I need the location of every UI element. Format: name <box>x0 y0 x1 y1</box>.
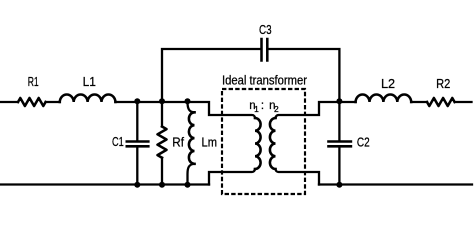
wire: node A down to C1 <box>136 102 138 140</box>
wire: R1 to L1 <box>46 101 60 103</box>
svg-text:C3: C3 <box>259 23 272 37</box>
resistor Rf <box>158 127 167 158</box>
wire: Rf down to node F <box>161 158 163 185</box>
svg-text:C2: C2 <box>357 136 370 150</box>
wire: node C to transformer primary top lead <box>188 102 256 118</box>
wire: node B down to Rf <box>161 102 163 127</box>
inductor L1 <box>60 94 116 102</box>
wire: secondary bottom step to node I <box>319 183 339 185</box>
node F junction dot <box>159 182 165 188</box>
wire: node E to node F <box>137 183 162 185</box>
capacitor C2 <box>327 142 352 147</box>
wire: L1 to node A <box>115 101 137 103</box>
svg-text:L1: L1 <box>83 75 96 89</box>
svg-text:L2: L2 <box>381 77 395 91</box>
svg-text:Rf: Rf <box>172 136 184 150</box>
wire: bottom rail left terminal to node E <box>1 183 138 185</box>
svg-text:1: 1 <box>254 104 259 114</box>
node B junction dot <box>159 98 165 104</box>
wire: Lm down to node G <box>188 164 195 185</box>
wire: transformer primary bottom lead <box>209 169 255 185</box>
svg-text:Ideal transformer: Ideal transformer <box>222 74 307 88</box>
wire: R2 to right output terminal <box>455 101 472 103</box>
ideal transformer boundary (dashed box) <box>222 89 305 194</box>
wire: node A to node B <box>137 101 162 103</box>
wire: transformer secondary bottom lead <box>276 169 320 185</box>
node I junction dot <box>336 182 342 188</box>
svg-text:C1: C1 <box>112 135 124 149</box>
svg-text::: : <box>261 100 264 112</box>
node G junction dot <box>185 182 191 188</box>
wire: node C down to Lm <box>188 102 195 112</box>
inductor Lm <box>189 112 195 164</box>
wire: node H to C2 top <box>338 102 340 140</box>
wire: node I to bottom right terminal <box>339 183 472 185</box>
wire: right section of C3 top rail down to node D <box>269 49 340 102</box>
resistor R2 <box>427 98 455 106</box>
wire: transformer secondary top lead to node D <box>276 102 340 118</box>
node E junction dot <box>134 182 140 188</box>
node A junction dot <box>134 98 140 104</box>
svg-text:R1: R1 <box>28 75 39 89</box>
wire: L2 to R2 <box>411 101 427 103</box>
wire: node G to primary bottom corner <box>188 183 210 185</box>
svg-text:2: 2 <box>274 104 279 114</box>
capacitor C1 <box>126 142 150 147</box>
capacitor C3 <box>262 38 268 62</box>
node D junction dot <box>336 98 342 104</box>
inductor L2 <box>356 95 412 103</box>
wire: C1 down to node E <box>136 148 138 185</box>
wire: node B to node C <box>162 101 188 103</box>
wire: left input terminal to R1 <box>1 101 19 103</box>
wire: node D to L2 <box>339 101 355 103</box>
svg-text:R2: R2 <box>436 77 450 91</box>
wire: node B up to top rail and left section of C3 rail <box>162 49 260 102</box>
svg-text:Lm: Lm <box>202 136 218 150</box>
wire: node F to node G <box>162 183 188 185</box>
transformer secondary winding <box>270 118 276 169</box>
resistor R1 <box>18 98 46 106</box>
transformer primary winding <box>255 118 261 169</box>
node C junction dot <box>185 98 191 104</box>
wire: C2 bottom to node I <box>338 148 340 185</box>
